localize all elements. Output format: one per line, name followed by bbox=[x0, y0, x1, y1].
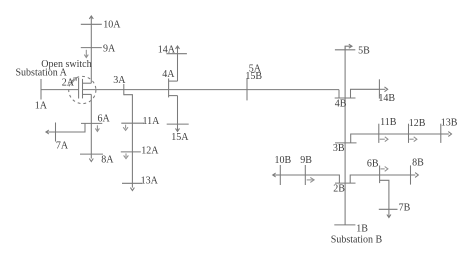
load arrow at 7A (left) bbox=[46, 130, 49, 134]
svg-text:Substation B: Substation B bbox=[331, 234, 383, 245]
svg-text:12A: 12A bbox=[141, 145, 159, 156]
node 15A bbox=[167, 123, 189, 125]
open switch S left bar bbox=[78, 78, 80, 99]
node 11B bbox=[378, 124, 380, 143]
node 9B bbox=[304, 165, 306, 185]
svg-text:6B: 6B bbox=[367, 158, 379, 169]
wire lateral up to 14A bbox=[177, 54, 179, 81]
wire feeder A main left segment bbox=[41, 89, 79, 91]
svg-text:13A: 13A bbox=[141, 176, 159, 187]
node 8B bbox=[410, 165, 412, 184]
node 10B bbox=[279, 165, 281, 185]
node 10A bbox=[81, 23, 102, 25]
load arrow at 12A bbox=[124, 153, 129, 158]
load arrow at 15A (down) bbox=[177, 124, 179, 131]
load arrow at 13A (down) bbox=[131, 183, 133, 187]
load arrow at 6A bbox=[95, 125, 99, 131]
node 14A bbox=[166, 53, 187, 55]
node 4A bbox=[168, 79, 170, 98]
node 1B bus bbox=[334, 224, 355, 226]
wire lateral down to 6A/8A bbox=[90, 94, 92, 154]
svg-text:15A: 15A bbox=[171, 132, 189, 143]
node 1A bbox=[40, 79, 42, 100]
load arrow at 5B (bend right) bbox=[345, 46, 351, 50]
svg-text:11B: 11B bbox=[380, 117, 397, 128]
node 11A bbox=[121, 122, 144, 124]
wire 7B branch jog bbox=[380, 180, 389, 209]
svg-text:1A: 1A bbox=[35, 100, 48, 111]
node 3B bus bbox=[335, 142, 357, 144]
node 12A bbox=[121, 151, 141, 153]
load arrow at 6B (above) bbox=[381, 167, 388, 172]
svg-text:9A: 9A bbox=[103, 43, 116, 54]
svg-text:4A: 4A bbox=[162, 69, 175, 80]
node 5B bbox=[335, 49, 355, 51]
load arrow at 14B (right) bbox=[379, 88, 385, 90]
wire lateral down to 15A bbox=[177, 96, 179, 125]
svg-text:12B: 12B bbox=[409, 118, 426, 129]
wire feeder A main right segment bbox=[83, 89, 340, 91]
node 7B bbox=[379, 208, 398, 210]
svg-text:14A: 14A bbox=[158, 44, 176, 55]
load arrow at 10A (feeder head, up) bbox=[90, 17, 92, 25]
svg-text:7B: 7B bbox=[399, 202, 411, 213]
open switch S right bar bbox=[82, 79, 84, 99]
svg-text:10B: 10B bbox=[275, 155, 292, 166]
load arrow at 10B (left) bbox=[273, 174, 280, 176]
wire 3A jog to lateral bbox=[124, 95, 133, 184]
node 9A bbox=[81, 47, 102, 49]
load arrow at 14A (up) bbox=[177, 47, 179, 54]
svg-text:Open switch: Open switch bbox=[41, 59, 91, 70]
svg-text:9B: 9B bbox=[300, 155, 312, 166]
load arrow at 11B bbox=[380, 137, 388, 142]
svg-text:3A: 3A bbox=[113, 75, 126, 86]
wire lateral up to 9A/10A bbox=[90, 24, 92, 83]
node 12B bbox=[408, 124, 410, 143]
node 6B bbox=[379, 166, 381, 184]
load arrow at 11A bbox=[123, 125, 128, 131]
node 4B bus bbox=[335, 97, 356, 99]
wire switch top stub bbox=[83, 82, 92, 84]
wire 4A top jog bbox=[169, 80, 178, 82]
svg-text:7A: 7A bbox=[56, 141, 69, 152]
svg-text:6A: 6A bbox=[98, 113, 111, 124]
svg-text:8A: 8A bbox=[101, 155, 114, 166]
load arrow at 7B (down) bbox=[388, 209, 390, 216]
node 5A / 15B tie point bbox=[246, 78, 248, 100]
node 2A pointer arrow bbox=[71, 78, 77, 85]
wire 2B left branch bbox=[280, 175, 339, 183]
wire 4A bottom jog bbox=[169, 95, 178, 97]
svg-text:11A: 11A bbox=[143, 116, 161, 127]
svg-text:8B: 8B bbox=[412, 158, 424, 169]
wire 14B jog up bbox=[351, 89, 380, 98]
load arrow at 8B (right) bbox=[411, 174, 416, 176]
svg-text:4B: 4B bbox=[335, 98, 347, 109]
node 7A bbox=[55, 123, 57, 142]
svg-text:5B: 5B bbox=[358, 46, 370, 57]
svg-text:1B: 1B bbox=[356, 223, 368, 234]
svg-text:14B: 14B bbox=[378, 93, 395, 104]
load arrow at 13B (right) bbox=[441, 133, 449, 135]
node 8A bbox=[80, 153, 103, 155]
wire feeder A drop to 4B bus bbox=[338, 90, 340, 98]
wire 2B right branch bbox=[350, 175, 410, 183]
node 14B bbox=[378, 79, 380, 98]
svg-text:13B: 13B bbox=[441, 117, 458, 128]
svg-text:2A: 2A bbox=[62, 78, 75, 89]
node 13B bbox=[440, 124, 442, 143]
node 6A bbox=[81, 122, 102, 124]
node 3A bbox=[123, 84, 125, 95]
svg-text:10A: 10A bbox=[103, 20, 121, 31]
open switch dashed circle bbox=[69, 76, 96, 103]
load arrow at 12B bbox=[409, 137, 417, 142]
load arrow at 8A (down) bbox=[90, 154, 92, 158]
wire switch bottom stub bbox=[83, 93, 92, 95]
wire 7A branch jog bbox=[46, 123, 85, 132]
node 2B bus bbox=[335, 182, 356, 184]
wire feeder B main vertical bbox=[344, 46, 346, 225]
load arrow at 9A bbox=[84, 50, 88, 58]
svg-text:2B: 2B bbox=[333, 184, 345, 195]
svg-text:15B: 15B bbox=[245, 71, 262, 82]
node 13A bbox=[122, 182, 142, 184]
wire 3B branch jog and line bbox=[351, 134, 441, 143]
load arrow at 9B bbox=[307, 177, 314, 182]
svg-text:3B: 3B bbox=[333, 143, 345, 154]
